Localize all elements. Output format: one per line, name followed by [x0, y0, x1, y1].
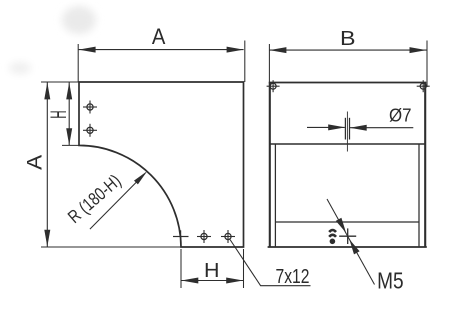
svg-text:M5: M5 — [377, 267, 404, 293]
svg-text:Ø7: Ø7 — [389, 104, 412, 125]
svg-text:A: A — [23, 154, 47, 170]
svg-text:B: B — [340, 27, 356, 50]
svg-text:A: A — [152, 24, 166, 49]
svg-text:H: H — [46, 110, 71, 118]
svg-text:7x12: 7x12 — [276, 265, 310, 288]
svg-text:H: H — [204, 260, 220, 282]
